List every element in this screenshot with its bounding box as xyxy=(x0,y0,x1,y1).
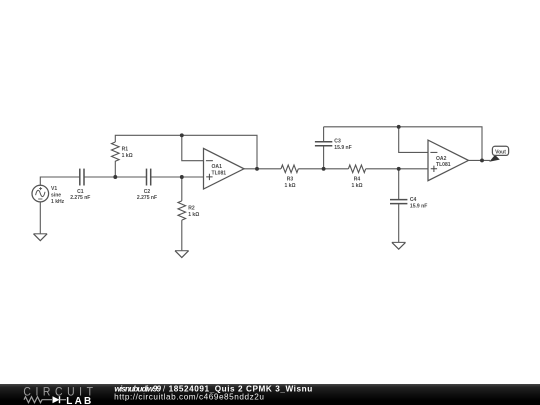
wire OA1 output to R3 xyxy=(244,168,281,170)
voltage source V1 xyxy=(32,185,49,202)
svg-text:1 kHz: 1 kHz xyxy=(51,199,65,205)
svg-text:TL081: TL081 xyxy=(212,171,227,177)
svg-text:sine: sine xyxy=(51,192,61,198)
wire R1 bottom lead xyxy=(114,161,116,177)
resistor R1 xyxy=(112,142,133,161)
svg-text:2.275 nF: 2.275 nF xyxy=(70,195,90,201)
wire C2 to OA1 plus input xyxy=(151,176,204,178)
wire C3 top lead xyxy=(323,127,325,141)
node V1 labels xyxy=(51,186,65,205)
wire R2 leads and ground lead xyxy=(181,177,183,251)
wire C1 to C2 xyxy=(84,176,147,178)
capacitor C4 xyxy=(390,200,407,204)
svg-text:1 kΩ: 1 kΩ xyxy=(188,212,199,218)
wire C4 bottom to ground xyxy=(398,204,400,243)
wire OA2 output xyxy=(469,159,491,161)
junction R4 / C4 top / OA2 plus row xyxy=(397,167,401,171)
svg-text:15.9 nF: 15.9 nF xyxy=(410,203,427,209)
svg-text:C2: C2 xyxy=(144,189,151,195)
svg-text:1 kΩ: 1 kΩ xyxy=(351,183,362,189)
junction feedback top / OA1 minus drop xyxy=(180,133,184,137)
ground (V1) xyxy=(34,234,48,241)
ground (R2) xyxy=(175,251,189,258)
junction R3-R4 / C3 bottom xyxy=(322,167,326,171)
ground (C4) xyxy=(392,242,406,249)
svg-text:C3: C3 xyxy=(334,138,341,144)
svg-text:15.9 nF: 15.9 nF xyxy=(334,145,351,151)
svg-text:LAB: LAB xyxy=(66,396,93,405)
junction OA1 output xyxy=(255,167,259,171)
junction feedback top 2 / OA2 minus drop xyxy=(397,125,401,129)
op-amp OA1 xyxy=(204,148,245,189)
wire C3 bottom lead xyxy=(323,146,325,169)
wire OA1 minus input drop xyxy=(182,135,204,160)
svg-text:Vout: Vout xyxy=(495,149,506,155)
wire R3 to R4 xyxy=(298,168,348,170)
wire V1 top to C1 xyxy=(40,177,80,186)
junction R1 bottom / input row xyxy=(113,175,117,179)
svg-text:OA2: OA2 xyxy=(436,156,447,162)
wire R4 to OA2 plus input xyxy=(366,168,428,170)
CircuitLab logo xyxy=(0,384,110,405)
svg-text:1 kΩ: 1 kΩ xyxy=(122,153,133,159)
svg-text:R2: R2 xyxy=(188,206,195,212)
node Vout flag xyxy=(489,146,508,161)
resistor R2 xyxy=(178,201,199,220)
junction R2 top / OA1 plus row xyxy=(180,175,184,179)
svg-text:R4: R4 xyxy=(354,177,361,183)
resistor R3 xyxy=(281,165,298,189)
svg-text:C1: C1 xyxy=(77,189,84,195)
wire OA2 minus input drop xyxy=(399,127,428,153)
junction OA2 output xyxy=(480,158,484,162)
wire V1 bottom to ground xyxy=(39,202,41,234)
wire C4 top lead xyxy=(398,169,400,199)
svg-text:C4: C4 xyxy=(410,197,417,203)
svg-text:R1: R1 xyxy=(122,147,129,153)
svg-text:V1: V1 xyxy=(51,186,57,192)
resistor R4 xyxy=(348,165,365,189)
wire feedback top stage 2 xyxy=(324,127,482,161)
wire feedback top stage 1 xyxy=(115,135,257,169)
svg-text:1 kΩ: 1 kΩ xyxy=(284,183,295,189)
capacitor C3 xyxy=(315,142,332,146)
capacitor C1 xyxy=(80,169,84,186)
svg-text:R3: R3 xyxy=(287,177,294,183)
svg-text:2.275 nF: 2.275 nF xyxy=(137,195,157,201)
op-amp OA2 xyxy=(428,140,469,181)
svg-text:OA1: OA1 xyxy=(212,164,223,170)
svg-text:http://circuitlab.com/c469e85n: http://circuitlab.com/c469e85nddz2u xyxy=(114,393,264,402)
svg-text:TL081: TL081 xyxy=(436,162,451,168)
capacitor C2 xyxy=(147,169,151,186)
